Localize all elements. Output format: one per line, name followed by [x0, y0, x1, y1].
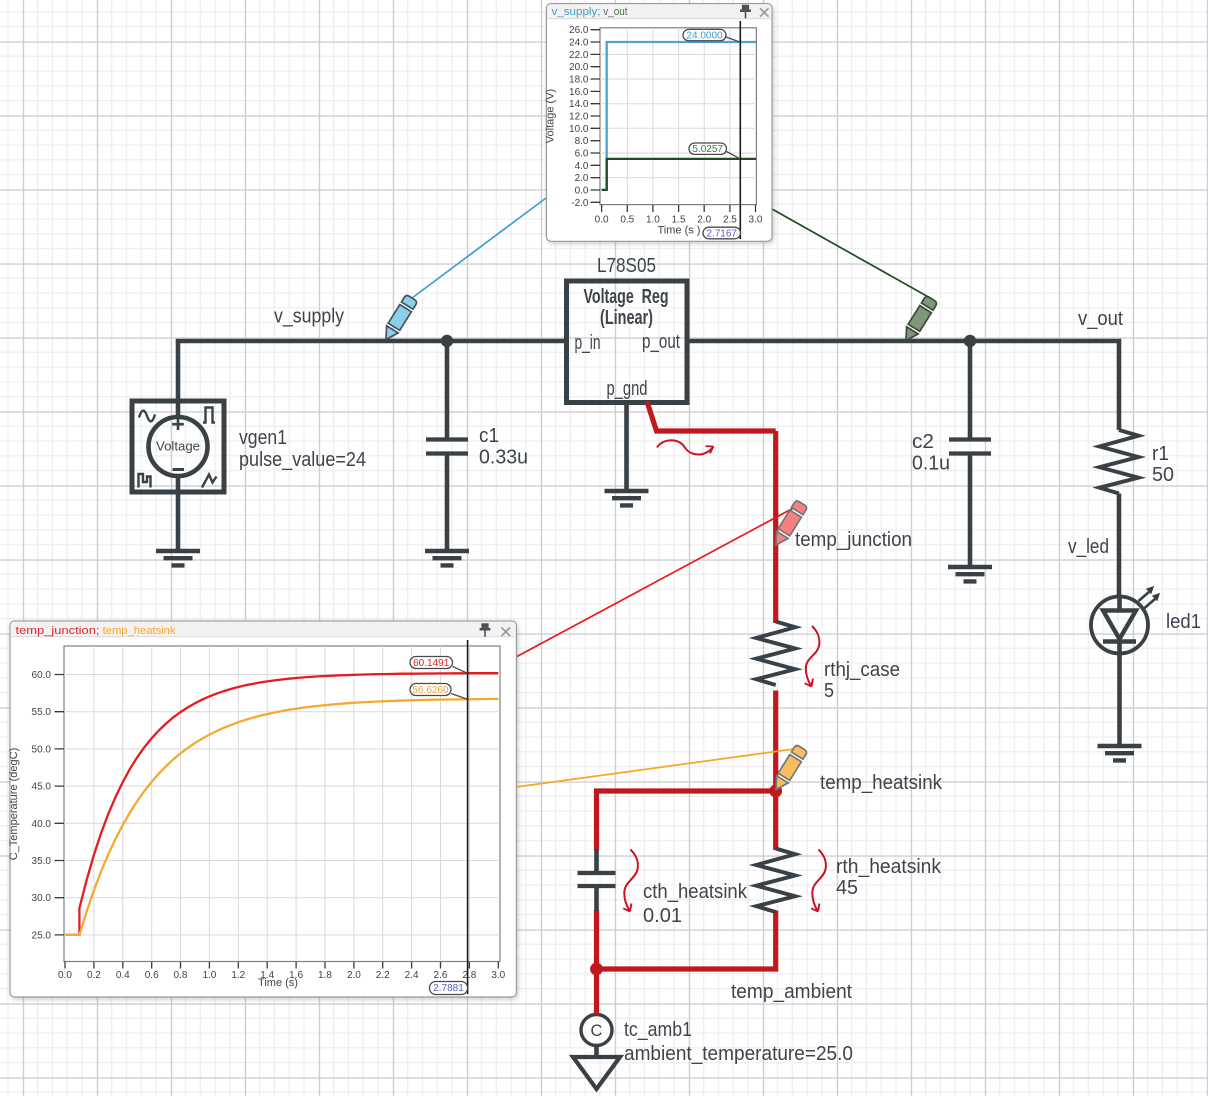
svg-text:2.2: 2.2	[376, 970, 390, 981]
svg-text:C_Temperature (degC): C_Temperature (degC)	[8, 748, 20, 861]
cursor w2	[467, 640, 469, 994]
svg-text:temp_ambient: temp_ambient	[731, 981, 852, 1003]
vgen1 sine icon	[139, 411, 155, 422]
svg-text:Voltage Reg: Voltage Reg	[584, 286, 669, 308]
wire probe link temp_junction	[516, 503, 802, 657]
svg-text:temp_heatsink: temp_heatsink	[820, 772, 943, 794]
probe temp_junction (red pencil)	[770, 500, 807, 549]
temp_junction trace	[65, 673, 498, 935]
capacitor c2	[949, 440, 991, 454]
svg-text:C: C	[591, 1022, 603, 1040]
svg-text:4.0: 4.0	[575, 161, 589, 172]
led led1	[1091, 597, 1148, 654]
svg-text:1.8: 1.8	[318, 970, 332, 981]
wire heatsink node down to rth	[773, 791, 778, 850]
svg-text:2.0: 2.0	[575, 173, 589, 184]
svg-text:30.0: 30.0	[32, 893, 52, 904]
svg-text:0.33u: 0.33u	[479, 447, 528, 469]
svg-text:led1: led1	[1166, 611, 1201, 633]
probe v_supply (blue pencil)	[380, 294, 417, 343]
resistor r1	[1100, 430, 1139, 494]
svg-text:(Linear): (Linear)	[600, 307, 653, 329]
svg-text:v_out: v_out	[1078, 308, 1123, 330]
ground c2	[948, 567, 992, 581]
wire ambient node horizontal	[597, 911, 776, 970]
svg-text:26.0: 26.0	[569, 25, 589, 36]
svg-text:v_led: v_led	[1068, 536, 1109, 558]
svg-text:0.0: 0.0	[575, 186, 589, 197]
svg-text:16.0: 16.0	[569, 87, 589, 98]
svg-text:v_supply; v_out: v_supply; v_out	[552, 6, 628, 18]
svg-text:0.8: 0.8	[174, 970, 188, 981]
value bubble 60.1491	[453, 667, 468, 674]
svg-text:45.0: 45.0	[32, 782, 52, 793]
svg-text:temp_junction; temp_heatsink: temp_junction; temp_heatsink	[16, 625, 176, 637]
svg-text:22.0: 22.0	[569, 50, 589, 61]
svg-text:p_out: p_out	[642, 331, 680, 353]
svg-text:L78S05: L78S05	[597, 255, 656, 277]
wire c2 top	[968, 341, 973, 440]
ground c1	[425, 551, 469, 565]
svg-text:0.6: 0.6	[145, 970, 159, 981]
svg-text:2.7881: 2.7881	[433, 983, 464, 994]
resistor rth_heatsink	[756, 849, 795, 913]
close icon w1	[760, 8, 769, 17]
svg-text:2.4: 2.4	[405, 970, 419, 981]
svg-text:vgen1: vgen1	[239, 427, 287, 449]
svg-text:45: 45	[836, 877, 858, 899]
svg-text:8.0: 8.0	[575, 136, 589, 147]
svg-text:1.2: 1.2	[231, 970, 245, 981]
heat arrow at rth_heatsink	[811, 850, 826, 912]
wire c2 bottom	[968, 454, 973, 568]
svg-text:0.5: 0.5	[620, 215, 634, 226]
svg-text:0.01: 0.01	[643, 905, 682, 927]
vgen1 minus mark	[173, 468, 185, 471]
svg-text:56.6260: 56.6260	[412, 685, 449, 696]
svg-text:24.0: 24.0	[569, 38, 589, 49]
svg-text:rthj_case: rthj_case	[824, 659, 900, 681]
value bubble 24.0000	[726, 37, 740, 42]
wire probe link temp_heatsink	[516, 748, 802, 787]
wire ambient node to tc_amb1	[594, 969, 599, 1015]
svg-text:40.0: 40.0	[32, 819, 52, 830]
wire rthj to heatsink node	[773, 691, 778, 792]
svg-text:12.0: 12.0	[569, 112, 589, 123]
svg-text:1.0: 1.0	[202, 970, 216, 981]
svg-text:Time (s ): Time (s )	[658, 225, 701, 237]
value bubble 56.6260	[451, 694, 468, 700]
temp_heatsink trace	[65, 699, 498, 935]
svg-text:0.0: 0.0	[58, 970, 72, 981]
wire c1 bottom	[445, 454, 450, 552]
svg-text:2.6: 2.6	[434, 970, 448, 981]
wire v_supply rail left	[178, 341, 566, 343]
heat arrow at rthj_case	[805, 626, 820, 687]
svg-text:c1: c1	[479, 425, 499, 447]
cursor bubble 2.7167	[703, 227, 741, 239]
svg-text:60.0: 60.0	[32, 670, 52, 681]
svg-text:Voltage: Voltage	[156, 439, 200, 454]
pin icon w1	[740, 5, 751, 18]
heat arrow at cth_heatsink	[623, 850, 638, 912]
led arrows	[1139, 592, 1156, 608]
wire heatsink node to cth branch	[597, 791, 776, 850]
svg-text:temp_junction: temp_junction	[795, 529, 912, 551]
wire led bottom	[1117, 654, 1122, 747]
wire cth bottom to ambient node	[594, 910, 599, 969]
ground p_gnd	[605, 491, 649, 505]
svg-text:2.0: 2.0	[347, 970, 361, 981]
close icon w2	[502, 628, 511, 637]
ground led1	[1098, 746, 1142, 760]
node temp_ambient dot	[590, 963, 603, 976]
svg-text:0.4: 0.4	[116, 970, 130, 981]
voltage source vgen1	[132, 401, 224, 492]
vgen1 plus mark	[172, 419, 184, 431]
svg-text:ambient_temperature=25.0: ambient_temperature=25.0	[624, 1043, 853, 1065]
svg-text:24.0000: 24.0000	[686, 31, 723, 42]
plot window temp_junction; temp_heatsink	[8, 621, 516, 997]
svg-text:55.0: 55.0	[32, 707, 52, 718]
svg-text:2.5: 2.5	[723, 215, 737, 226]
wire probe link v_supply	[412, 198, 546, 298]
svg-text:rth_heatsink: rth_heatsink	[836, 856, 942, 878]
svg-text:2.7167: 2.7167	[706, 229, 737, 240]
svg-text:v_supply: v_supply	[274, 306, 344, 328]
svg-text:5: 5	[824, 680, 834, 702]
svg-text:0.2: 0.2	[87, 970, 101, 981]
v_supply trace	[602, 42, 756, 190]
svg-text:-2.0: -2.0	[571, 198, 589, 209]
wire thermal junction vertical	[773, 431, 778, 623]
svg-text:35.0: 35.0	[32, 856, 52, 867]
vgen1 pulse icon	[139, 474, 151, 488]
wire probe link v_out	[772, 209, 932, 299]
pin icon w2	[480, 623, 491, 637]
svg-text:Voltage (V): Voltage (V)	[545, 89, 557, 143]
cursor bubble 2.7881	[430, 982, 468, 995]
svg-text:2.8: 2.8	[462, 970, 476, 981]
node v_supply junction	[441, 335, 453, 347]
svg-text:25.0: 25.0	[32, 930, 52, 941]
plot window v_supply; v_out	[545, 4, 773, 242]
thermal source tc_amb1 circle	[581, 1015, 612, 1046]
svg-text:r1: r1	[1152, 443, 1169, 465]
svg-text:tc_amb1: tc_amb1	[624, 1019, 692, 1041]
wire vgen1 top	[176, 341, 181, 401]
resistor rthj_case	[756, 622, 795, 686]
wire c1 top	[445, 341, 450, 440]
svg-text:18.0: 18.0	[569, 75, 589, 86]
value bubble 5.0257	[727, 152, 741, 159]
svg-text:Time (s): Time (s)	[258, 977, 298, 989]
vgen1 square icon	[203, 408, 215, 423]
wire p_gnd	[624, 403, 629, 491]
svg-text:60.1491: 60.1491	[413, 658, 450, 669]
svg-text:50.0: 50.0	[32, 744, 52, 755]
ground vgen1	[156, 551, 200, 565]
svg-text:5.0257: 5.0257	[692, 144, 723, 155]
svg-text:50: 50	[1152, 464, 1174, 486]
svg-text:0.0: 0.0	[595, 215, 609, 226]
svg-text:p_gnd: p_gnd	[607, 378, 648, 400]
probe v_out (green pencil)	[900, 295, 937, 344]
svg-text:3.0: 3.0	[491, 970, 505, 981]
svg-text:0.1u: 0.1u	[912, 453, 950, 475]
svg-text:14.0: 14.0	[569, 99, 589, 110]
capacitor c1	[426, 440, 468, 454]
svg-text:3.0: 3.0	[749, 215, 763, 226]
capacitor cth_heatsink	[594, 849, 599, 911]
ground tc_amb1 triangle	[573, 1057, 620, 1089]
wire vgen1 bottom	[176, 492, 181, 551]
svg-text:c2: c2	[912, 431, 934, 453]
svg-text:pulse_value=24: pulse_value=24	[239, 449, 366, 471]
svg-text:6.0: 6.0	[575, 149, 589, 160]
op-amp U1 voltage regulator box L78S05	[567, 281, 688, 403]
heat arrow at p_gnd	[657, 440, 714, 454]
svg-text:10.0: 10.0	[569, 124, 589, 135]
cursor w1	[739, 21, 741, 239]
wire r1 to led	[1117, 494, 1122, 598]
wire p_gnd heat out	[647, 402, 776, 432]
v_out trace	[602, 159, 756, 190]
svg-text:p_in: p_in	[575, 332, 601, 354]
svg-text:cth_heatsink: cth_heatsink	[643, 881, 748, 903]
wire v_out rail right	[687, 341, 1119, 430]
node temp_heatsink dot	[769, 785, 782, 798]
svg-text:20.0: 20.0	[569, 62, 589, 73]
node c2 junction	[964, 335, 976, 347]
vgen1 triangle icon	[202, 475, 217, 488]
probe temp_heatsink (orange pencil)	[770, 744, 807, 793]
